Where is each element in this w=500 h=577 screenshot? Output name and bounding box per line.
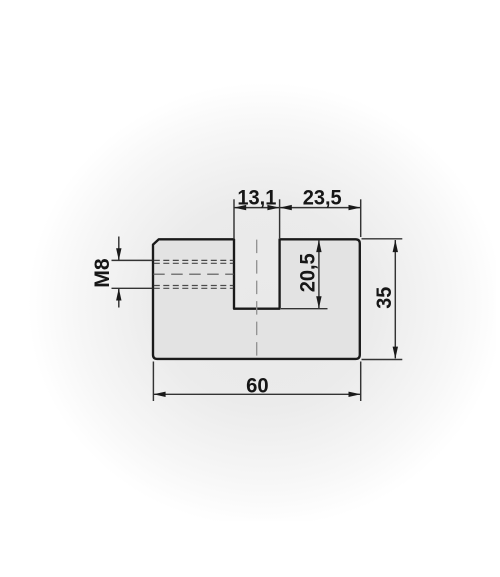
extension line 13,1 left xyxy=(233,199,235,238)
arrow 60 right xyxy=(349,392,361,397)
arrow 20,5 top xyxy=(316,240,321,252)
arrow 20,5 bottom xyxy=(316,296,321,308)
extension line 20,5 bottom xyxy=(281,308,328,310)
extension line 60 right xyxy=(360,362,362,402)
hidden line thread major bottom xyxy=(154,287,234,289)
dimension line M8 upper segment xyxy=(118,237,120,261)
extension line 35 top xyxy=(362,238,403,240)
arrow 13,1 right xyxy=(267,205,279,210)
arrow 35 bottom xyxy=(393,347,398,359)
extension line 35 bottom xyxy=(362,359,403,361)
extension line M8 top xyxy=(112,259,153,261)
arrow M8 top xyxy=(116,248,121,260)
block body outline xyxy=(153,239,360,359)
centerline hole horizontal xyxy=(153,273,234,275)
extension line 60 left xyxy=(152,362,154,402)
svg-text:23,5: 23,5 xyxy=(303,187,342,210)
extension line 23,5 right xyxy=(360,199,362,237)
arrow 23,5 right xyxy=(349,205,361,210)
arrow 35 top xyxy=(393,240,398,252)
hidden line drill bottom xyxy=(154,285,234,287)
arrow 23,5 left xyxy=(280,205,292,210)
arrow 13,1 left xyxy=(234,205,246,210)
svg-text:60: 60 xyxy=(246,375,269,398)
svg-text:M8: M8 xyxy=(91,258,114,288)
dimension line M8 lower segment xyxy=(118,288,120,307)
svg-text:13,1: 13,1 xyxy=(237,187,276,210)
hidden line drill top xyxy=(154,262,234,264)
extension line M8 bottom xyxy=(112,287,153,289)
svg-text:20,5: 20,5 xyxy=(297,253,320,292)
arrow 60 left xyxy=(153,392,165,397)
dimension line 13,1 + 23,5 xyxy=(234,207,361,209)
svg-text:35: 35 xyxy=(373,286,396,308)
dimension line 35 xyxy=(394,240,396,358)
centerline slot vertical xyxy=(256,240,258,359)
extension line 13,1/23,5 shared xyxy=(279,199,281,238)
dimension line 20,5 xyxy=(318,240,320,308)
arrow M8 bottom xyxy=(116,288,121,300)
dimension line 60 xyxy=(153,393,360,395)
hidden line thread major top xyxy=(154,259,234,261)
